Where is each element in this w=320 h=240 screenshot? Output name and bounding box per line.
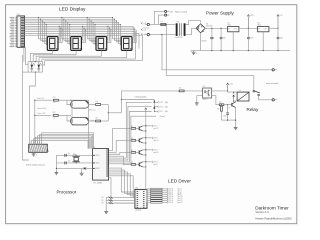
wire jack merge [107,105,109,122]
wire mains bottom [149,34,175,36]
resistor R4 4k7 [179,90,184,92]
svg-text:7812: 7812 [227,25,231,27]
svg-text:(pin 13): (pin 13) [178,202,183,204]
svg-text:LED Driver: LED Driver [168,178,191,183]
svg-text:(pin 8): (pin 8) [178,192,183,194]
wire to hand switch jack [67,115,71,121]
regulator IC2 7805 [258,27,269,32]
svg-text:JP3: JP3 [101,203,104,205]
crystal X1 and caps [56,154,92,156]
wire emitter bus down to CN2 [145,167,147,189]
svg-text:(display): (display) [135,210,141,212]
supply arrow relay 12V [227,85,229,93]
resistor R6 to ground [220,105,222,106]
svg-text:4MHz: 4MHz [73,154,77,156]
wire segment bus from CN1 [25,16,113,18]
wire far left bus [22,55,28,160]
svg-text:PIC 7: PIC 7 [159,111,163,113]
wire mains switch loop [154,11,164,24]
svg-text:Limiting diodes: Limiting diodes [135,95,147,98]
wire emitter to ground [235,108,237,126]
wire reset branch line [35,114,50,116]
resistor R1 [53,99,58,101]
ground symbol relay [235,126,237,128]
ground symbol opto [196,101,198,103]
svg-text:(mains): (mains) [144,28,150,30]
svg-text:(pin 10): (pin 10) [178,196,183,198]
resistor R2 [89,104,96,106]
transistor T3 [130,151,131,153]
processor IC4 PIC16F84 [93,149,109,181]
svg-text:(pin 12): (pin 12) [153,128,159,130]
svg-text:10k: 10k [95,118,98,120]
wires PIC bottom to CN2 [109,168,135,192]
svg-text:B1: B1 [206,23,208,25]
svg-text:IC3: IC3 [203,86,206,88]
svg-text:100n: 100n [250,37,254,39]
svg-text:Version 1.0: Version 1.0 [255,210,269,214]
wire RC to emitter [221,119,235,121]
svg-text:T5: T5 [228,107,230,109]
wire coil to transistor collector [234,100,236,103]
wire to footswitch jack [67,100,71,104]
svg-text:CN1: CN1 [17,14,20,16]
svg-text:JP1: JP1 [101,197,104,199]
svg-text:2200uF: 2200uF [201,40,206,42]
colon indicator LEDs D1 D2 [28,61,42,63]
net label digit 4 [146,161,151,163]
capacitor C3 100n [247,28,249,36]
svg-text:Red - 5V: Red - 5V [37,98,44,100]
ground symbol CN3 [33,152,35,154]
footswitch jack J1 [71,101,89,108]
display LD4 [121,37,132,51]
fuse F1 [149,24,160,26]
svg-text:OUT: OUT [264,29,267,31]
svg-text:(pin 10): (pin 10) [153,152,159,154]
net label digit 3 [146,149,151,151]
svg-text:22p: 22p [68,153,71,155]
svg-text:LED Display: LED Display [59,7,86,13]
svg-text:TR1: TR1 [177,21,180,23]
svg-text:IN: IN [258,29,259,31]
svg-text:LED F: LED F [169,198,173,200]
svg-text:F1: F1 [161,21,163,23]
svg-text:R11: R11 [53,97,56,99]
wire opto cathode to ground [197,96,203,102]
mains input terminals X1 [147,23,149,25]
relay K1 coil [237,92,249,101]
connector CN2 display cable [135,189,147,208]
resistor R5 base [219,104,224,106]
wire CN1 bottom feeds [23,47,25,61]
display LD1 [47,37,58,51]
svg-text:OSC1: OSC1 [95,155,99,157]
flyback diode D4 [233,92,235,94]
wire jack1 sleeve [72,108,87,125]
svg-text:Hessie PaardeMolens (c)2000: Hessie PaardeMolens (c)2000 [255,216,292,220]
svg-text:Darkroom Timer: Darkroom Timer [255,205,289,210]
net label rows limiting [154,101,157,103]
wire opto collector to 5V [212,90,228,92]
svg-text:22p: 22p [68,161,71,163]
svg-text:100n: 100n [223,116,227,118]
svg-text:PIC 6: PIC 6 [159,106,163,108]
wire 5V branch line [35,99,52,101]
capacitor C4 100n [277,28,279,36]
LED driver resistor rows [147,188,151,190]
wire VDD feed [88,100,90,148]
diode D5 [153,99,155,101]
svg-text:LED B: LED B [169,190,173,192]
transistor T1 [130,127,131,129]
wire relay top rail [228,91,250,93]
capacitor C2 100n [220,28,222,36]
svg-text:OUT: OUT [234,29,237,31]
mains switch terminals [165,10,167,12]
svg-text:IC1: IC1 [227,23,230,25]
svg-text:OSC2: OSC2 [95,163,99,165]
wire wrap lines right of LD4 [25,31,136,33]
svg-text:(Green LED): (Green LED) [37,108,47,110]
wire segment drops and junction dots [39,17,48,38]
svg-text:LED H: LED H [169,202,173,204]
LED D2 [38,62,40,65]
svg-text:4k7: 4k7 [219,102,222,104]
wire 12V rail [239,27,258,29]
svg-text:mains out switch: mains out switch [266,82,279,85]
capacitor C1 2200uF [211,28,213,36]
svg-text:DIG 2: DIG 2 [153,138,157,140]
wire to optocoupler [121,90,178,92]
terminal mains out 1 [272,69,274,71]
wire secondary to bridge [186,21,201,25]
svg-text:SW1: SW1 [170,11,174,13]
svg-text:PIC 5: PIC 5 [159,102,163,104]
net label digit 2 [146,137,151,139]
wires CN3 pins to processor [30,141,32,144]
svg-text:DIG 4: DIG 4 [153,162,157,164]
ground symbol jumpers [105,210,107,212]
display LD3 [96,37,107,51]
wire 5V rail [269,27,278,29]
wire opto emitter to base resistor [212,96,219,105]
svg-text:7805: 7805 [257,25,261,27]
svg-text:PIC 16F84: PIC 16F84 [93,183,102,185]
svg-text:(pin 7): (pin 7) [178,190,183,192]
wire limiting diode branch [121,99,152,101]
svg-text:100n: 100n [223,37,227,39]
wire base feed nest [109,128,130,150]
svg-text:(pin 11): (pin 11) [178,198,183,200]
transformer TR1 [176,23,178,36]
wire contact to out terminal [259,96,272,100]
wire PIC to limiting diodes nest [109,102,152,158]
wire wrap returns to LD4 area [42,58,136,60]
ground bus [191,50,290,52]
connector CN3 switch and dial [29,144,48,152]
resistor R12 [50,114,51,116]
wire mains live to relay contact [166,25,254,91]
svg-text:(pin 11): (pin 11) [153,140,158,142]
supply arrow +5V [277,16,279,28]
transistor T2 [130,139,131,141]
jumper cluster JP1-JP3 [106,197,113,199]
wire mains neutral to out terminal [162,35,272,70]
diode D6 [153,107,155,109]
svg-text:Relay: Relay [247,107,259,112]
svg-text:K1: K1 [239,90,241,92]
wire DC rail [205,27,227,29]
ground symbol power supply [193,51,195,53]
svg-text:230V/2x9V: 230V/2x9V [175,37,184,39]
terminal mains out 2 [272,99,274,101]
connector CN1 display header [15,16,17,18]
svg-text:Mains switch: Mains switch [175,10,188,13]
svg-text:4k7: 4k7 [179,88,182,90]
emitter bus and supply arrow [145,109,147,112]
svg-text:CNY17: CNY17 [202,99,207,101]
svg-text:R12: R12 [53,112,56,114]
regulator IC1 7812 [228,27,239,32]
svg-text:JP2: JP2 [101,200,104,202]
svg-text:B40C800: B40C800 [206,25,212,27]
wire digit common returns below displays [52,50,54,53]
bridge rectifier B1 [196,24,205,33]
supply arrow +12V [247,16,249,28]
svg-text:IC2: IC2 [257,23,260,25]
diode D7 reset [84,167,86,170]
wire left bus down to CN3 [30,72,36,144]
wire MCLR reset [56,167,83,169]
wire bridge minus to ground bus [200,33,202,51]
svg-text:(pin 12): (pin 12) [178,200,183,202]
svg-text:(pin 9): (pin 9) [153,164,158,166]
svg-text:Processor: Processor [57,190,77,195]
svg-text:(pin 9): (pin 9) [178,194,183,196]
wire crystal bus to ground [55,155,57,171]
svg-text:10k: 10k [95,101,98,103]
svg-text:LED E: LED E [169,196,173,198]
hand switch jack J2 [71,117,89,124]
svg-text:0: 0 [196,53,197,55]
capacitor C5 [227,105,229,113]
relay contact [253,90,255,92]
LED D1 [31,62,33,65]
svg-text:(pin 6): (pin 6) [178,188,183,190]
svg-text:DIG 1: DIG 1 [153,126,157,128]
wire ground bus right end [289,50,291,52]
svg-text:0: 0 [36,155,37,157]
svg-text:Power Supply: Power Supply [206,10,235,15]
svg-text:IN: IN [228,29,229,31]
svg-text:Switch and dial connector: Switch and dial connector [26,163,46,166]
svg-text:100n: 100n [280,37,284,39]
transistor Q5 relay driver [231,103,233,107]
svg-text:CN2: CN2 [135,188,138,190]
transistor T4 [130,163,131,165]
resistor R3 [89,120,96,122]
net label digit 1 [146,125,151,127]
display LD2 [71,37,82,51]
svg-text:Drive - 12V: Drive - 12V [37,113,46,115]
ground symbol crystal [55,171,57,173]
svg-text:10k: 10k [217,109,220,111]
optocoupler IC3 [203,88,212,98]
svg-text:DIG 3: DIG 3 [153,150,157,152]
